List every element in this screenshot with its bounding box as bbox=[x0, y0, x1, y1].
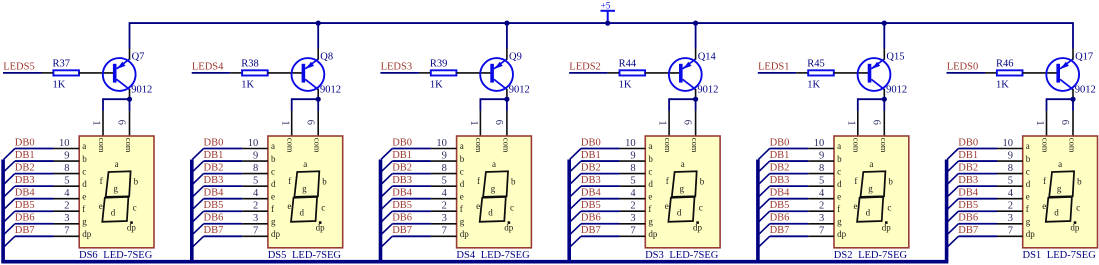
pin 6 (com) of DS4 bbox=[493, 111, 507, 136]
pin dp (7) of DS4 bbox=[431, 226, 469, 239]
svg-text:f: f bbox=[648, 204, 651, 214]
pin 6 (com) of DS6 bbox=[116, 111, 130, 136]
svg-text:c: c bbox=[82, 166, 86, 176]
pin c (8) of DS2 bbox=[808, 163, 841, 176]
svg-text:e: e bbox=[854, 201, 858, 211]
svg-text:com: com bbox=[690, 138, 700, 153]
svg-text:DB2: DB2 bbox=[581, 162, 601, 173]
wire collector node to com pins bbox=[480, 98, 507, 111]
svg-text:7: 7 bbox=[1008, 226, 1013, 237]
svg-text:dp: dp bbox=[271, 229, 281, 239]
7-segment glyph of DS1 bbox=[1046, 171, 1076, 224]
svg-text:LEDS5: LEDS5 bbox=[3, 62, 35, 73]
resistor R44 bbox=[620, 70, 646, 75]
pin dp (7) of DS5 bbox=[242, 226, 280, 239]
bus entry DB4 bbox=[381, 199, 392, 210]
wire net DB5 bbox=[15, 210, 54, 212]
svg-text:d: d bbox=[488, 207, 493, 217]
svg-text:8: 8 bbox=[630, 163, 635, 174]
bus entry DB7 bbox=[381, 236, 392, 247]
svg-text:1K: 1K bbox=[430, 80, 443, 91]
bus entry DB0 bbox=[381, 149, 392, 160]
svg-text:b: b bbox=[322, 177, 327, 187]
svg-text:5: 5 bbox=[630, 175, 635, 186]
bus entry DB1 bbox=[192, 161, 203, 172]
wire net DB0 bbox=[581, 148, 620, 150]
segment letters bbox=[476, 159, 516, 233]
svg-text:DB7: DB7 bbox=[15, 225, 35, 236]
wire Q9 emitter to +5 rail bbox=[506, 22, 508, 48]
bus entry DB1 bbox=[758, 161, 769, 172]
bus entry DB5 bbox=[758, 211, 769, 222]
wire net DB2 bbox=[581, 173, 620, 175]
svg-text:9: 9 bbox=[819, 150, 824, 161]
svg-text:3: 3 bbox=[630, 213, 635, 224]
7-segment glyph of DS4 bbox=[480, 171, 511, 224]
display DS2 LED-7SEG body bbox=[834, 136, 909, 248]
svg-text:R38: R38 bbox=[241, 58, 259, 69]
svg-text:f: f bbox=[100, 176, 103, 186]
wire net DB5 bbox=[204, 210, 243, 212]
svg-text:c: c bbox=[133, 203, 137, 213]
display DS1 LED-7SEG body bbox=[1023, 136, 1098, 248]
svg-text:2: 2 bbox=[1008, 201, 1013, 212]
svg-text:DS6: DS6 bbox=[79, 250, 98, 261]
wire net DB5 bbox=[581, 210, 620, 212]
bus entry DB2 bbox=[570, 174, 581, 185]
bus entry DB2 bbox=[758, 174, 769, 185]
wire net DB3 bbox=[392, 185, 431, 187]
svg-text:DB7: DB7 bbox=[770, 225, 790, 236]
svg-text:9: 9 bbox=[64, 150, 69, 161]
svg-text:a: a bbox=[460, 141, 464, 151]
transistor Q9 (PNP 9012) bbox=[480, 48, 513, 99]
junction Q9 collector node bbox=[504, 97, 509, 102]
svg-text:DB7: DB7 bbox=[392, 225, 412, 236]
bus DB[0..7] horizontal bbox=[1, 260, 948, 264]
wire net DB3 bbox=[770, 185, 809, 187]
svg-text:g: g bbox=[302, 184, 307, 194]
svg-text:f: f bbox=[288, 176, 291, 186]
svg-text:10: 10 bbox=[248, 138, 259, 149]
bus entry DB1 bbox=[947, 161, 958, 172]
wire net DB0 bbox=[958, 148, 997, 150]
bus entry DB0 bbox=[570, 149, 581, 160]
svg-text:a: a bbox=[115, 159, 119, 169]
svg-text:9: 9 bbox=[442, 150, 447, 161]
pin 6 (com) of DS2 bbox=[870, 111, 884, 136]
wire net DB1 bbox=[15, 160, 54, 162]
svg-text:10: 10 bbox=[814, 138, 825, 149]
svg-text:c: c bbox=[460, 166, 464, 176]
bus entry DB5 bbox=[381, 211, 392, 222]
svg-text:1K: 1K bbox=[619, 80, 632, 91]
svg-text:DS1: DS1 bbox=[1023, 250, 1042, 261]
wire / pin 2 of R46 to base of Q17 bbox=[1023, 72, 1058, 74]
wire Q15 emitter to +5 rail bbox=[883, 22, 885, 48]
svg-text:5: 5 bbox=[1008, 175, 1013, 186]
svg-text:g: g bbox=[271, 216, 276, 226]
wire net DB7 bbox=[392, 235, 431, 237]
svg-text:b: b bbox=[82, 154, 87, 164]
segment letters bbox=[99, 159, 139, 233]
resistor R39 bbox=[431, 70, 457, 75]
bus entry DB0 bbox=[192, 149, 203, 160]
pin b (9) of DS4 bbox=[431, 150, 465, 163]
display DS3 LED-7SEG body bbox=[645, 136, 720, 248]
pin f (2) of DS6 bbox=[54, 201, 86, 214]
svg-text:d: d bbox=[677, 207, 682, 217]
svg-text:b: b bbox=[648, 154, 653, 164]
bus entry DB3 bbox=[947, 186, 958, 197]
pin c (8) of DS6 bbox=[54, 163, 87, 176]
svg-text:DB3: DB3 bbox=[204, 175, 224, 186]
svg-text:3: 3 bbox=[442, 213, 447, 224]
display DS4 LED-7SEG body bbox=[457, 136, 532, 248]
svg-text:g: g bbox=[113, 184, 118, 194]
svg-text:e: e bbox=[837, 191, 841, 201]
pin f (2) of DS3 bbox=[620, 201, 652, 214]
bus entry DB7 bbox=[947, 236, 958, 247]
svg-text:com: com bbox=[663, 138, 673, 153]
svg-text:4: 4 bbox=[630, 188, 636, 199]
svg-text:dp: dp bbox=[882, 223, 892, 233]
svg-text:f: f bbox=[837, 204, 840, 214]
wire net DB1 bbox=[392, 160, 431, 162]
wire net DB6 bbox=[770, 223, 809, 225]
wire / pin 2 of R38 to base of Q8 bbox=[268, 72, 303, 74]
svg-text:DB4: DB4 bbox=[204, 187, 225, 198]
svg-text:6: 6 bbox=[1059, 120, 1070, 125]
bus entry DB5 bbox=[4, 211, 15, 222]
svg-text:dp: dp bbox=[82, 229, 92, 239]
svg-text:g: g bbox=[1026, 216, 1031, 226]
svg-text:Q9: Q9 bbox=[509, 51, 522, 62]
svg-text:9: 9 bbox=[630, 150, 635, 161]
svg-text:a: a bbox=[681, 159, 685, 169]
svg-text:LED-7SEG: LED-7SEG bbox=[292, 250, 341, 261]
svg-text:5: 5 bbox=[819, 175, 824, 186]
svg-text:DB1: DB1 bbox=[581, 150, 601, 161]
junction +5 / rail bbox=[605, 21, 610, 26]
svg-text:dp: dp bbox=[460, 229, 470, 239]
svg-text:dp: dp bbox=[127, 223, 136, 233]
svg-text:DB0: DB0 bbox=[581, 137, 601, 148]
svg-text:dp: dp bbox=[316, 223, 326, 233]
svg-text:LED-7SEG: LED-7SEG bbox=[669, 250, 718, 261]
wire / pin 2 of R39 to base of Q9 bbox=[456, 72, 491, 74]
svg-text:DB1: DB1 bbox=[770, 150, 790, 161]
wire net DB2 bbox=[15, 173, 54, 175]
7-segment glyph of DS3 bbox=[668, 171, 698, 224]
pin a (10) of DS3 bbox=[620, 138, 653, 151]
wire net DB2 bbox=[204, 173, 243, 175]
wire collector node to com pins bbox=[1047, 98, 1074, 111]
bus DB[0..7] vertical (DS4) bbox=[379, 160, 383, 262]
bus entry DB6 bbox=[570, 224, 581, 235]
svg-text:c: c bbox=[271, 166, 275, 176]
svg-text:DB6: DB6 bbox=[204, 213, 224, 224]
pin 1 (com) of DS6 bbox=[91, 111, 103, 136]
wire net DB4 bbox=[958, 198, 997, 200]
7-segment glyph of DS5 bbox=[291, 171, 322, 224]
svg-text:Q15: Q15 bbox=[886, 51, 904, 62]
svg-text:dp: dp bbox=[837, 229, 847, 239]
pin d (5) of DS2 bbox=[808, 175, 842, 188]
pin 1 of R37 bbox=[42, 72, 54, 74]
pin 1 (com) of DS1 bbox=[1034, 111, 1046, 136]
transistor Q15 (PNP 9012) bbox=[858, 48, 891, 99]
svg-text:DB2: DB2 bbox=[958, 162, 978, 173]
svg-text:com: com bbox=[124, 138, 134, 153]
svg-text:DB3: DB3 bbox=[770, 175, 790, 186]
pin e (4) of DS2 bbox=[808, 188, 841, 201]
wire net DB6 bbox=[958, 223, 997, 225]
svg-text:dp: dp bbox=[693, 223, 703, 233]
junction Q8 collector node bbox=[316, 97, 321, 102]
wire net DB0 bbox=[15, 148, 54, 150]
wire net LEDS4 bbox=[192, 72, 231, 74]
pin b (9) of DS2 bbox=[808, 150, 842, 163]
junction Q15 collector node bbox=[882, 97, 887, 102]
svg-text:1: 1 bbox=[845, 120, 856, 125]
svg-text:b: b bbox=[511, 177, 516, 187]
pin dp (7) of DS6 bbox=[54, 226, 92, 239]
bus entry DB6 bbox=[192, 224, 203, 235]
svg-text:b: b bbox=[700, 177, 705, 187]
svg-text:f: f bbox=[854, 176, 857, 186]
svg-text:com: com bbox=[852, 138, 862, 153]
svg-text:g: g bbox=[868, 184, 873, 194]
pin 1 of R38 bbox=[230, 72, 242, 74]
svg-text:d: d bbox=[837, 179, 842, 189]
svg-text:9012: 9012 bbox=[131, 85, 152, 96]
svg-text:9012: 9012 bbox=[1075, 85, 1096, 96]
svg-text:c: c bbox=[837, 166, 841, 176]
svg-text:DB3: DB3 bbox=[958, 175, 978, 186]
svg-text:g: g bbox=[680, 184, 685, 194]
svg-text:e: e bbox=[665, 201, 669, 211]
pin c (8) of DS3 bbox=[620, 163, 653, 176]
junction Q17 collector node bbox=[1070, 97, 1075, 102]
pin a (10) of DS6 bbox=[54, 138, 87, 151]
pin c (8) of DS4 bbox=[431, 163, 464, 176]
wire net DB4 bbox=[392, 198, 431, 200]
wire net DB3 bbox=[581, 185, 620, 187]
pin 1 of R39 bbox=[419, 72, 431, 74]
pin 1 (com) of DS2 bbox=[845, 111, 857, 136]
svg-text:DB5: DB5 bbox=[581, 200, 601, 211]
wire net DB4 bbox=[581, 198, 620, 200]
svg-text:a: a bbox=[271, 141, 275, 151]
svg-text:LED-7SEG: LED-7SEG bbox=[858, 250, 907, 261]
wire net DB5 bbox=[770, 210, 809, 212]
svg-text:DB5: DB5 bbox=[392, 200, 412, 211]
display DS6 LED-7SEG body bbox=[79, 136, 154, 248]
wire net DB7 bbox=[770, 235, 809, 237]
svg-text:f: f bbox=[82, 204, 85, 214]
pin g (3) of DS3 bbox=[620, 213, 654, 226]
svg-text:8: 8 bbox=[1008, 163, 1013, 174]
pin b (9) of DS3 bbox=[620, 150, 654, 163]
svg-text:LEDS1: LEDS1 bbox=[758, 62, 790, 73]
svg-text:Q14: Q14 bbox=[698, 51, 717, 62]
pin 1 (com) of DS3 bbox=[657, 111, 669, 136]
bus DB[0..7] vertical (DS2) bbox=[756, 160, 760, 262]
svg-text:4: 4 bbox=[819, 188, 825, 199]
segment letters bbox=[1042, 159, 1082, 233]
bus DB[0..7] vertical (DS1) bbox=[945, 160, 949, 262]
svg-text:f: f bbox=[477, 176, 480, 186]
pin g (3) of DS1 bbox=[997, 213, 1031, 226]
svg-text:d: d bbox=[1054, 207, 1059, 217]
svg-text:b: b bbox=[837, 154, 842, 164]
svg-text:R45: R45 bbox=[807, 58, 825, 69]
svg-text:+5: +5 bbox=[601, 0, 611, 10]
svg-text:DB6: DB6 bbox=[770, 213, 790, 224]
pin g (3) of DS4 bbox=[431, 213, 465, 226]
svg-text:com: com bbox=[474, 138, 484, 153]
svg-text:g: g bbox=[82, 216, 87, 226]
svg-text:DB4: DB4 bbox=[392, 187, 413, 198]
wire net DB6 bbox=[15, 223, 54, 225]
svg-text:3: 3 bbox=[1008, 213, 1013, 224]
bus entry DB4 bbox=[758, 199, 769, 210]
svg-text:g: g bbox=[491, 184, 496, 194]
svg-text:DB0: DB0 bbox=[392, 137, 412, 148]
pin 1 of R46 bbox=[985, 72, 997, 74]
junction rail / Q8 emitter bbox=[316, 21, 321, 26]
svg-text:DB0: DB0 bbox=[15, 137, 35, 148]
svg-text:com: com bbox=[286, 138, 296, 153]
pin e (4) of DS3 bbox=[620, 188, 653, 201]
svg-text:DB0: DB0 bbox=[204, 137, 224, 148]
bus entry DB2 bbox=[381, 174, 392, 185]
bus entry DB6 bbox=[758, 224, 769, 235]
svg-text:DB5: DB5 bbox=[15, 200, 35, 211]
svg-text:c: c bbox=[699, 203, 703, 213]
wire net DB1 bbox=[770, 160, 809, 162]
svg-text:com: com bbox=[879, 138, 889, 153]
wire net DB3 bbox=[15, 185, 54, 187]
wire net DB6 bbox=[392, 223, 431, 225]
svg-text:g: g bbox=[837, 216, 842, 226]
svg-text:b: b bbox=[1077, 177, 1082, 187]
svg-text:7: 7 bbox=[64, 226, 69, 237]
svg-text:DB5: DB5 bbox=[958, 200, 978, 211]
svg-text:3: 3 bbox=[253, 213, 258, 224]
wire collector node to com pins bbox=[858, 98, 885, 111]
bus entry DB3 bbox=[192, 186, 203, 197]
junction Q14 collector node bbox=[693, 97, 698, 102]
svg-text:2: 2 bbox=[442, 201, 447, 212]
svg-text:e: e bbox=[648, 191, 652, 201]
svg-text:d: d bbox=[111, 207, 116, 217]
transistor Q14 (PNP 9012) bbox=[669, 48, 702, 99]
svg-text:Q7: Q7 bbox=[132, 51, 145, 62]
svg-text:9: 9 bbox=[1008, 150, 1013, 161]
svg-text:e: e bbox=[82, 191, 86, 201]
pin d (5) of DS5 bbox=[242, 175, 276, 188]
svg-text:e: e bbox=[287, 201, 291, 211]
svg-text:DB6: DB6 bbox=[15, 213, 35, 224]
bus entry DB2 bbox=[947, 174, 958, 185]
svg-text:com: com bbox=[97, 138, 107, 153]
svg-text:8: 8 bbox=[64, 163, 69, 174]
svg-text:5: 5 bbox=[253, 175, 258, 186]
wire net DB2 bbox=[770, 173, 809, 175]
wire net DB0 bbox=[204, 148, 243, 150]
bus entry DB5 bbox=[570, 211, 581, 222]
svg-text:dp: dp bbox=[1026, 229, 1036, 239]
svg-text:LED-7SEG: LED-7SEG bbox=[1047, 250, 1096, 261]
pin b (9) of DS6 bbox=[54, 150, 88, 163]
svg-text:7: 7 bbox=[442, 226, 447, 237]
bus entry DB7 bbox=[192, 236, 203, 247]
wire net DB1 bbox=[204, 160, 243, 162]
wire net DB3 bbox=[958, 185, 997, 187]
bus entry DB6 bbox=[947, 224, 958, 235]
svg-text:LEDS4: LEDS4 bbox=[192, 62, 224, 73]
svg-text:DB2: DB2 bbox=[15, 162, 35, 173]
svg-text:9: 9 bbox=[253, 150, 258, 161]
bus entry DB2 bbox=[192, 174, 203, 185]
svg-text:10: 10 bbox=[1003, 138, 1014, 149]
svg-text:LEDS0: LEDS0 bbox=[947, 62, 979, 73]
bus entry DB0 bbox=[947, 149, 958, 160]
svg-text:c: c bbox=[1076, 203, 1080, 213]
pin 1 (com) of DS5 bbox=[279, 111, 291, 136]
svg-text:g: g bbox=[648, 216, 653, 226]
pin dp (7) of DS2 bbox=[808, 226, 846, 239]
svg-text:d: d bbox=[866, 207, 871, 217]
svg-text:6: 6 bbox=[870, 120, 881, 125]
svg-text:Q17: Q17 bbox=[1075, 51, 1093, 62]
segment letters bbox=[287, 159, 327, 233]
svg-text:3: 3 bbox=[64, 213, 69, 224]
svg-text:4: 4 bbox=[1008, 188, 1014, 199]
wire +5 power rail bbox=[130, 22, 1074, 24]
svg-text:1: 1 bbox=[468, 120, 479, 125]
wire net DB7 bbox=[581, 235, 620, 237]
bus entry DB4 bbox=[192, 199, 203, 210]
pin 6 (com) of DS3 bbox=[682, 111, 696, 136]
svg-text:LED-7SEG: LED-7SEG bbox=[481, 250, 530, 261]
svg-text:LED-7SEG: LED-7SEG bbox=[103, 250, 152, 261]
svg-text:5: 5 bbox=[442, 175, 447, 186]
bus DB[0..7] vertical (DS6) bbox=[1, 160, 5, 262]
power symbol +5 bbox=[601, 0, 616, 23]
wire net LEDS3 bbox=[380, 72, 419, 74]
svg-text:6: 6 bbox=[116, 120, 127, 125]
bus entry DB4 bbox=[570, 199, 581, 210]
svg-text:d: d bbox=[271, 179, 276, 189]
pin b (9) of DS1 bbox=[997, 150, 1031, 163]
wire / pin 2 of R45 to base of Q15 bbox=[834, 72, 869, 74]
resistor R38 bbox=[242, 70, 268, 75]
svg-text:8: 8 bbox=[442, 163, 447, 174]
pin f (2) of DS1 bbox=[997, 201, 1029, 214]
wire / pin 2 of R37 to base of Q7 bbox=[79, 72, 114, 74]
svg-text:c: c bbox=[648, 166, 652, 176]
wire net LEDS1 bbox=[758, 72, 797, 74]
svg-text:R46: R46 bbox=[996, 58, 1014, 69]
bus entry DB0 bbox=[4, 149, 15, 160]
bus entry DB4 bbox=[947, 199, 958, 210]
svg-text:7: 7 bbox=[253, 226, 258, 237]
bus entry DB7 bbox=[4, 236, 15, 247]
svg-text:DB1: DB1 bbox=[392, 150, 412, 161]
